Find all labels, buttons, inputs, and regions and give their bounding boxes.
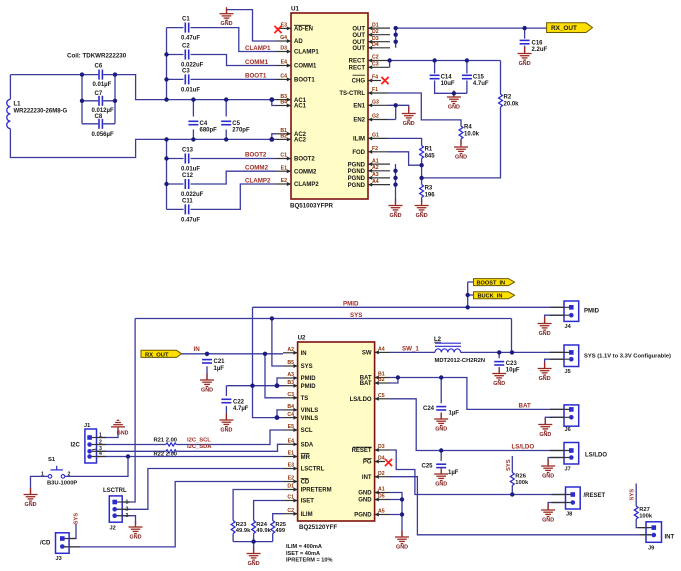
svg-text:CLAMP1: CLAMP1 [294, 50, 319, 56]
wire C23 branch [498, 352, 500, 373]
wire R3 to GND [421, 178, 423, 204]
svg-text:CLAMP1: CLAMP1 [245, 45, 271, 52]
wire C3 to BOOT1 [167, 78, 277, 80]
svg-text:PMID: PMID [301, 376, 317, 382]
svg-text:R27: R27 [639, 507, 650, 513]
svg-text:B2: B2 [280, 134, 287, 140]
resistor R3 [420, 185, 436, 199]
svg-text:10uF: 10uF [441, 81, 455, 87]
svg-text:J6: J6 [565, 427, 571, 433]
svg-text:R3: R3 [425, 186, 433, 192]
svg-text:E3: E3 [281, 23, 287, 29]
svg-text:C8: C8 [95, 114, 103, 120]
wire FOD joins R1 bottom [388, 152, 422, 165]
U2 left pin names [301, 351, 332, 518]
svg-text:C5: C5 [232, 121, 240, 127]
no-connect X on AD-EN pin E3 [274, 26, 281, 33]
svg-text:0.01uF: 0.01uF [181, 88, 200, 94]
svg-text:MR: MR [301, 455, 311, 461]
ground GND C21 [200, 374, 214, 394]
svg-text:D1: D1 [372, 22, 379, 28]
svg-text:1µF: 1µF [214, 366, 225, 372]
svg-text:PMID: PMID [343, 301, 359, 308]
svg-text:BQ25120YFF: BQ25120YFF [299, 524, 337, 531]
svg-text:U2: U2 [298, 335, 306, 342]
svg-text:GND: GND [358, 498, 372, 504]
svg-text:F2: F2 [372, 146, 378, 152]
ground GND J2 pin3 [129, 521, 143, 541]
ground GND R3 [415, 199, 429, 219]
wire S1 right to MR [65, 457, 128, 477]
svg-text:OUT: OUT [352, 40, 365, 46]
svg-text:SYS (1.1V to 3.3V Configurable: SYS (1.1V to 3.3V Configurable) [584, 354, 671, 360]
svg-text:2: 2 [68, 471, 71, 477]
ground GND J1 pin1 (inverted) [111, 420, 129, 436]
connector J6 BAT [564, 405, 579, 433]
wire PMID pins jog [277, 378, 283, 386]
svg-text:CD: CD [301, 480, 310, 486]
connector J8 /RESET [566, 487, 606, 518]
resistor R1 [420, 146, 436, 160]
wire R26 SYS pullup [511, 456, 513, 495]
svg-text:BAT: BAT [360, 381, 372, 387]
svg-text:100k: 100k [639, 514, 653, 520]
svg-text:CLAMP2: CLAMP2 [245, 178, 271, 185]
svg-text:C1: C1 [287, 495, 294, 501]
svg-text:499: 499 [275, 528, 285, 534]
net flag BUCK_IN [474, 292, 515, 300]
svg-text:C1: C1 [182, 17, 190, 23]
svg-text:J5: J5 [565, 369, 571, 375]
svg-text:4.7uF: 4.7uF [473, 81, 489, 87]
svg-text:AD: AD [294, 39, 303, 45]
resistor R2 [499, 94, 520, 108]
wire BOOST_IN BUCK_IN rail [468, 282, 474, 307]
ground GND C25 [434, 468, 448, 488]
svg-text:RX_OUT: RX_OUT [551, 25, 577, 32]
capacitor C1 [181, 17, 200, 42]
svg-text:ISET: ISET [301, 499, 315, 505]
svg-text:C12: C12 [182, 173, 194, 179]
svg-text:100k: 100k [515, 480, 529, 486]
U2 left pin stubs [283, 353, 298, 514]
wire LSCTRL row to J2 pin2 [122, 469, 283, 510]
wire TS-CTRL to R4 [388, 93, 461, 145]
junction dots U1 right nets [387, 26, 526, 187]
wire C12 to COMM2 [167, 171, 277, 184]
svg-text:/CD: /CD [40, 541, 51, 547]
svg-text:0.47uF: 0.47uF [181, 36, 200, 42]
resistor R4 [459, 125, 480, 140]
svg-text:2.2uF: 2.2uF [532, 47, 548, 53]
svg-text:D1: D1 [287, 484, 294, 490]
ground GND J7 [541, 460, 555, 480]
svg-text:B3: B3 [287, 380, 294, 386]
svg-text:PMID: PMID [301, 384, 317, 390]
svg-text:J3: J3 [56, 556, 62, 562]
svg-text:A3: A3 [287, 372, 294, 378]
svg-text:ISET = 40mA: ISET = 40mA [286, 551, 320, 557]
svg-text:0.01uF: 0.01uF [181, 167, 200, 173]
U2 left pin numbers [287, 347, 294, 514]
svg-text:10µF: 10µF [506, 368, 520, 374]
wire U2 GND bus [390, 493, 402, 537]
svg-text:C13: C13 [182, 148, 194, 154]
svg-text:SW: SW [362, 351, 372, 357]
svg-text:PGND: PGND [348, 183, 366, 189]
connector J4 PMID [564, 301, 600, 330]
U2 pin arrows [293, 350, 378, 516]
wire J3 pin2 to CD [69, 482, 283, 547]
svg-text:C23: C23 [506, 361, 518, 367]
wire C8 row [82, 123, 115, 125]
svg-text:BAT: BAT [519, 402, 531, 409]
connector pin stubs (dark) [64, 307, 651, 547]
svg-text:1µF: 1µF [448, 470, 459, 476]
wire J7 pin2 to GND [548, 458, 564, 466]
wire ILIM to R1 [388, 138, 422, 178]
svg-text:D4: D4 [372, 42, 379, 48]
svg-text:SYS: SYS [506, 459, 512, 471]
connector J9 INT [646, 522, 675, 552]
svg-text:C3: C3 [182, 69, 190, 75]
svg-text:G3: G3 [372, 100, 379, 106]
svg-text:D5: D5 [378, 494, 385, 500]
svg-text:196: 196 [425, 193, 436, 199]
wire C25 branch [440, 451, 442, 474]
svg-text:J2: J2 [110, 526, 116, 532]
svg-text:C21: C21 [214, 359, 226, 365]
svg-text:C16: C16 [532, 40, 544, 46]
svg-text:A1: A1 [372, 158, 379, 164]
svg-text:EN1: EN1 [353, 104, 365, 110]
svg-text:CLAMP2: CLAMP2 [294, 182, 319, 188]
U1 left pin names [294, 27, 319, 189]
wire SYS top row [135, 319, 511, 367]
svg-text:D3: D3 [378, 444, 385, 450]
U1 right pin names [339, 26, 365, 189]
svg-text:WR222230-26M8-G: WR222230-26M8-G [14, 109, 68, 115]
svg-text:ILIM = 400mA: ILIM = 400mA [286, 544, 322, 550]
wire AC2 B1 jog [272, 134, 276, 140]
svg-text:R23: R23 [236, 522, 247, 528]
svg-text:R24: R24 [256, 522, 267, 528]
svg-text:G4: G4 [280, 35, 287, 41]
svg-text:AC2: AC2 [294, 138, 307, 144]
svg-text:BOOT2: BOOT2 [294, 157, 315, 163]
capacitor C5 [221, 121, 250, 134]
capacitor C14 [430, 75, 455, 88]
svg-text:C7: C7 [95, 91, 103, 97]
wire BAT row to J6 [398, 378, 564, 410]
svg-text:680pF: 680pF [200, 128, 218, 134]
svg-text:IN: IN [194, 346, 201, 353]
svg-text:OUT: OUT [352, 26, 365, 32]
wire I2C_SCL row [97, 430, 284, 445]
svg-text:VINLS: VINLS [301, 408, 319, 414]
svg-text:OUT: OUT [352, 33, 365, 39]
note ILIM ISET IPRETERM [286, 544, 332, 564]
svg-text:J4: J4 [565, 324, 572, 330]
svg-text:E5: E5 [288, 424, 294, 430]
wire C1-C3 rail to AC1 [166, 28, 168, 210]
svg-text:IPRETERM = 10%: IPRETERM = 10% [286, 558, 332, 564]
connector J2 LSCTRL header [103, 488, 129, 532]
ground GND J6 [538, 418, 552, 438]
resistor R22 with label [154, 450, 178, 458]
pushbutton S1 B3U-1000P [41, 457, 77, 486]
wire coil top to C6 (AC1 side) [10, 75, 276, 158]
ground GND top (AD) [220, 7, 234, 27]
net flag RX_OUT (top) [547, 23, 593, 33]
U2 right pin names [350, 351, 373, 519]
wire AD to GND [227, 10, 277, 41]
svg-text:B5: B5 [287, 360, 294, 366]
svg-text:C1: C1 [280, 153, 287, 159]
wire RX_OUT to IN [182, 353, 284, 355]
svg-text:SCL: SCL [301, 428, 313, 434]
svg-text:TS: TS [301, 396, 309, 402]
svg-text:Coil: TDKWR222230: Coil: TDKWR222230 [67, 53, 127, 60]
svg-text:I2C_SCL: I2C_SCL [187, 438, 211, 444]
wire SW to L2 to J5 [390, 351, 564, 353]
svg-text:RESET: RESET [352, 448, 372, 454]
capacitor C21 [202, 359, 225, 372]
connector J3 /CD header [40, 533, 69, 562]
svg-text:COMM1: COMM1 [294, 64, 317, 70]
svg-text:J9: J9 [648, 546, 654, 552]
wire PMID top row [226, 307, 564, 417]
capacitor C7 [92, 91, 114, 114]
ground GND C14 C15 [447, 91, 461, 111]
svg-text:0.056µF: 0.056µF [92, 132, 114, 138]
svg-text:C4: C4 [280, 74, 287, 80]
capacitor C23 [494, 361, 520, 374]
svg-text:R21 2.00: R21 2.00 [154, 438, 178, 444]
wire PGND bus [395, 164, 397, 203]
svg-text:GND: GND [358, 491, 372, 497]
svg-text:R1: R1 [425, 147, 433, 153]
svg-text:SYS: SYS [301, 364, 313, 370]
svg-text:R22 2.00: R22 2.00 [154, 451, 178, 457]
svg-text:A2: A2 [372, 165, 379, 171]
wire RECT bus [390, 61, 501, 68]
svg-text:C15: C15 [473, 75, 485, 81]
wire S1 left to GND [31, 476, 49, 494]
wire J2 pin3 to GND [122, 516, 135, 525]
U1 right pin numbers [372, 22, 379, 185]
wire C13 to BOOT2 [167, 158, 277, 160]
svg-text:BOOT1: BOOT1 [294, 78, 315, 84]
wire AC1 B4 jog [272, 100, 276, 106]
wire C21 branch [206, 354, 208, 380]
wire I2C_SDA row [97, 444, 284, 451]
connector J7 LS/LDO [564, 443, 607, 473]
wire C4 branch [192, 100, 194, 140]
svg-text:F1: F1 [372, 87, 378, 93]
capacitor C8 [92, 114, 114, 138]
junction dots bottom nets [126, 293, 515, 544]
svg-text:A5: A5 [378, 509, 385, 515]
net flag RX_OUT (bottom) [141, 350, 182, 358]
svg-text:RX_OUT: RX_OUT [145, 352, 169, 358]
svg-text:G2: G2 [372, 114, 379, 120]
svg-text:PGND: PGND [354, 513, 372, 519]
svg-text:E4: E4 [288, 439, 294, 445]
svg-text:LSCTRL: LSCTRL [301, 467, 325, 473]
ground GND U2 GND bus [395, 531, 409, 551]
IC U2 BQ25120YFF body [298, 335, 375, 532]
svg-text:B4: B4 [287, 404, 294, 410]
svg-text:B4: B4 [280, 100, 287, 106]
svg-text:LS/LDO: LS/LDO [350, 397, 372, 403]
wire ILIM to R25 [273, 514, 283, 542]
wire EN1 EN2 to GND [388, 105, 409, 119]
svg-text:0.47uF: 0.47uF [181, 217, 200, 223]
wire IPRETERM to R23 [233, 490, 283, 542]
U2 right pin stubs [375, 352, 390, 514]
connector J5 SYS [564, 345, 671, 375]
wire C7 row [82, 100, 115, 102]
wire RESET to J8 [390, 450, 566, 495]
wire R27 SYS pullup [636, 484, 649, 528]
svg-text:BQ51003YFPR: BQ51003YFPR [290, 203, 334, 210]
svg-text:C24: C24 [423, 406, 435, 412]
capacitor C12 [181, 173, 204, 198]
wires U1 right side [388, 28, 547, 203]
svg-text:PGND: PGND [348, 176, 366, 182]
ground GND EN1 EN2 [402, 107, 416, 127]
svg-text:C3: C3 [287, 392, 294, 398]
svg-text:SYS: SYS [630, 489, 636, 501]
svg-text:G1: G1 [372, 133, 379, 139]
resistor R25 [271, 521, 287, 535]
resistor R27 [634, 506, 653, 520]
inductor L2 MDT2012-CH2R2N [434, 337, 485, 364]
svg-text:A3: A3 [372, 172, 379, 178]
wire VINLS pins jog [277, 410, 283, 418]
capacitor C4 [188, 121, 217, 134]
IC U1 BQ51003YFPR body [290, 6, 368, 210]
ground GND J8 [541, 504, 555, 524]
capacitor C3 [181, 69, 200, 94]
svg-text:A4: A4 [372, 179, 379, 185]
svg-text:0.01µF: 0.01µF [93, 82, 112, 88]
no-connect X on PG pin D4 [385, 459, 392, 466]
wire C5 branch [225, 100, 227, 140]
net flag BOOST_IN [474, 279, 515, 287]
wire J5 pin2 to GND [545, 359, 564, 368]
svg-text:C4: C4 [287, 412, 294, 418]
svg-text:AC1: AC1 [294, 104, 307, 110]
capacitor C24 [423, 406, 459, 417]
svg-text:RECT: RECT [349, 59, 366, 65]
wire LS/LDO to J7 [390, 399, 564, 451]
wire INT to J9 [390, 477, 651, 535]
svg-text:INT: INT [665, 535, 675, 541]
svg-text:BOOT2: BOOT2 [245, 152, 267, 159]
inductor L1 [7, 99, 68, 128]
svg-text:20.0k: 20.0k [504, 102, 520, 108]
svg-text:D3: D3 [372, 36, 379, 42]
capacitor C11 [181, 198, 200, 223]
svg-text:L1: L1 [14, 102, 22, 108]
svg-text:AD-EN: AD-EN [294, 27, 313, 33]
svg-text:E1: E1 [288, 451, 294, 457]
wires bottom-right [390, 315, 651, 536]
ground GND C22 [219, 414, 233, 434]
connector J1 I2C header [71, 423, 103, 463]
wire J1 pin1 to GND [97, 429, 119, 437]
wire C15 branch [466, 61, 468, 94]
svg-text:GND: GND [117, 430, 129, 436]
svg-text:0.022uF: 0.022uF [181, 192, 204, 198]
svg-text:C2: C2 [287, 508, 294, 514]
svg-text:C14: C14 [441, 75, 453, 81]
svg-text:R2: R2 [504, 95, 512, 101]
svg-text:I2C_SDA: I2C_SDA [187, 444, 212, 450]
wire OUT bus to RX_OUT [396, 28, 547, 48]
ground GND PGND bus [389, 199, 403, 219]
svg-text:VINLS: VINLS [301, 416, 319, 422]
svg-text:IPRETERM: IPRETERM [301, 488, 332, 494]
svg-text:U1: U1 [291, 6, 299, 13]
svg-text:E2: E2 [288, 476, 294, 482]
svg-text:C2: C2 [372, 55, 379, 61]
svg-text:ILIM: ILIM [301, 512, 313, 518]
svg-text:SDA: SDA [301, 443, 314, 449]
svg-text:A2: A2 [287, 347, 294, 353]
wire C14 branch [435, 61, 467, 97]
svg-text:C22: C22 [233, 399, 245, 405]
svg-text:845: 845 [425, 154, 436, 160]
svg-text:SW_1: SW_1 [402, 345, 419, 352]
ground GND R23 R24 R25 [247, 547, 261, 567]
wire C1 to CLAMP1 [167, 28, 277, 52]
svg-text:COMM1: COMM1 [245, 59, 269, 66]
svg-text:F4: F4 [372, 75, 378, 81]
svg-text:LS/LDO: LS/LDO [512, 444, 535, 451]
svg-text:D3: D3 [280, 46, 287, 52]
svg-text:RECT: RECT [349, 66, 366, 72]
svg-text:ILIM: ILIM [353, 137, 365, 143]
wire R2 branch RECT to FOD node [422, 61, 501, 178]
no-connect X on CHG pin F4 [381, 77, 388, 84]
svg-text:CHG: CHG [352, 79, 366, 85]
svg-text:1: 1 [41, 471, 44, 477]
svg-text:TS-CTRL: TS-CTRL [339, 91, 365, 97]
svg-text:C5: C5 [378, 393, 385, 399]
svg-text:PGND: PGND [348, 162, 366, 168]
svg-text:MDT2012-CH2R2N: MDT2012-CH2R2N [435, 358, 486, 364]
svg-text:E1: E1 [281, 165, 287, 171]
U1 left pin stubs [276, 28, 291, 184]
svg-text:49.9k: 49.9k [256, 528, 271, 534]
resistor R24 [252, 521, 272, 535]
wire J6 pin2 to GND [545, 417, 564, 424]
capacitor C25 [422, 464, 459, 477]
wire C22 branch [225, 386, 227, 420]
svg-text:E2: E2 [281, 178, 287, 184]
svg-text:S1: S1 [48, 457, 56, 463]
svg-text:PMID: PMID [584, 308, 600, 314]
svg-text:D2: D2 [378, 471, 385, 477]
wire C24 branch [440, 378, 442, 419]
ground GND J4 [538, 317, 552, 337]
wire C16 branch [524, 28, 526, 53]
svg-text:49.9k: 49.9k [236, 528, 251, 534]
svg-text:BOOT1: BOOT1 [245, 73, 267, 80]
